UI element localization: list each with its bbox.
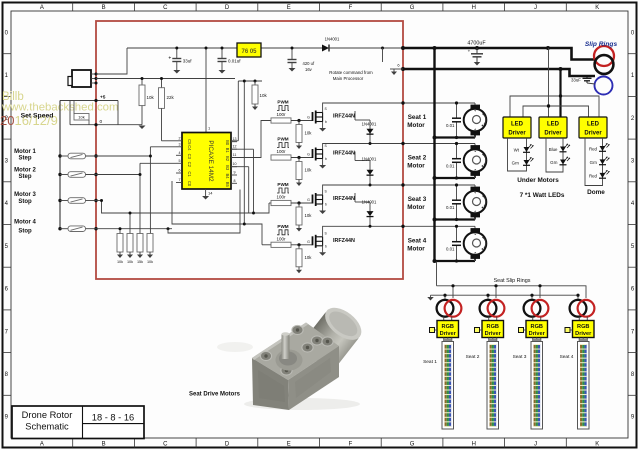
svg-text:Grn: Grn: [590, 160, 598, 165]
svg-text:G: G: [307, 116, 310, 120]
svg-text:Blue: Blue: [549, 147, 558, 152]
svg-text:+: +: [168, 56, 171, 62]
svg-text:Motor 1: Motor 1: [14, 149, 36, 155]
svg-text:5: 5: [179, 159, 181, 163]
svg-text:B: B: [102, 442, 106, 448]
svg-text:Set Speed: Set Speed: [21, 113, 54, 120]
svg-text:1N4001: 1N4001: [362, 200, 377, 205]
svg-text:K: K: [595, 5, 599, 11]
svg-text:4700uF: 4700uF: [467, 41, 486, 47]
svg-text:0.01uf: 0.01uf: [228, 59, 241, 64]
svg-text:LED: LED: [587, 122, 600, 128]
svg-text:Seat 4: Seat 4: [560, 354, 574, 360]
svg-text:LED: LED: [511, 122, 524, 128]
svg-text:E: E: [287, 442, 291, 448]
svg-text:100r: 100r: [276, 236, 286, 241]
svg-text:J: J: [534, 442, 537, 448]
svg-text:Under Motors: Under Motors: [517, 177, 559, 184]
svg-text:J: J: [534, 5, 537, 11]
svg-text:Motor 3: Motor 3: [14, 192, 36, 198]
svg-text:B0: B0: [225, 140, 230, 146]
svg-text:Red: Red: [589, 147, 598, 152]
svg-text:1N4001: 1N4001: [325, 37, 340, 42]
svg-text:H: H: [472, 5, 476, 11]
svg-text:100r: 100r: [276, 195, 286, 200]
svg-text:F: F: [349, 442, 353, 448]
svg-text:1N4001: 1N4001: [362, 122, 377, 127]
svg-text:100r: 100r: [276, 149, 286, 154]
svg-text:D: D: [225, 5, 230, 11]
svg-text:11: 11: [233, 153, 237, 157]
svg-text:G: G: [410, 5, 415, 11]
svg-text:9: 9: [234, 171, 236, 175]
svg-text:Rotate command from: Rotate command from: [329, 70, 373, 75]
svg-text:Seat 3: Seat 3: [513, 354, 527, 360]
svg-text:Schematic: Schematic: [25, 422, 69, 432]
svg-text:D: D: [225, 442, 230, 448]
svg-text:33uf: 33uf: [183, 59, 193, 64]
svg-text:Grn: Grn: [550, 160, 558, 165]
svg-text:14: 14: [208, 191, 213, 196]
svg-text:Driver: Driver: [485, 331, 502, 337]
svg-text:Seat Drive Motors: Seat Drive Motors: [189, 392, 241, 398]
svg-text:Motor: Motor: [407, 204, 425, 211]
svg-text:b: b: [325, 244, 327, 248]
svg-text:PWM: PWM: [277, 137, 288, 142]
svg-text:Motor: Motor: [407, 162, 425, 169]
svg-text:IRFZ44N: IRFZ44N: [333, 114, 355, 120]
svg-text:Stop: Stop: [18, 199, 32, 205]
svg-text:7 *1 Watt LEDs: 7 *1 Watt LEDs: [520, 192, 565, 199]
svg-text:Step: Step: [18, 156, 31, 162]
svg-text:G: G: [307, 198, 310, 202]
svg-text:B1: B1: [225, 148, 230, 154]
svg-text:10k: 10k: [305, 213, 313, 218]
svg-text:22k: 22k: [167, 95, 175, 100]
svg-text:Grn: Grn: [512, 161, 520, 166]
svg-text:LED: LED: [547, 122, 560, 128]
svg-text:10k: 10k: [305, 168, 313, 173]
svg-text:Drone Rotor: Drone Rotor: [22, 410, 73, 420]
svg-text:IRFZ44N: IRFZ44N: [333, 151, 355, 157]
svg-text:1N4001: 1N4001: [362, 157, 377, 162]
svg-text:Seat 1: Seat 1: [423, 359, 437, 365]
svg-text:C4: C4: [187, 145, 192, 151]
svg-text:420 uf: 420 uf: [303, 61, 315, 66]
svg-text:b: b: [325, 157, 327, 161]
svg-text:F: F: [349, 5, 353, 11]
svg-text:Motor: Motor: [407, 122, 425, 129]
svg-text:Seat 3: Seat 3: [408, 196, 427, 203]
svg-text:K: K: [595, 442, 599, 448]
svg-text:Driver: Driver: [508, 131, 526, 137]
svg-text:Seat 2: Seat 2: [408, 155, 427, 162]
svg-text:Seat 2: Seat 2: [466, 354, 480, 360]
svg-text:Red: Red: [589, 173, 598, 178]
svg-text:Driver: Driver: [575, 331, 592, 337]
svg-text:A: A: [40, 442, 44, 448]
svg-text:33uF: 33uF: [571, 78, 581, 83]
svg-text:Wt: Wt: [514, 148, 520, 153]
svg-text:b: b: [325, 203, 327, 207]
svg-text:10k: 10k: [117, 260, 123, 264]
svg-text:A: A: [40, 5, 44, 11]
svg-text:100r: 100r: [276, 112, 286, 117]
svg-text:IRFZ44N: IRFZ44N: [333, 196, 355, 202]
svg-text:+5: +5: [100, 95, 106, 101]
svg-text:Slip Rings: Slip Rings: [585, 41, 618, 48]
svg-text:Motor: Motor: [407, 245, 425, 252]
svg-text:0.01: 0.01: [446, 205, 455, 210]
svg-text:10k: 10k: [78, 115, 84, 120]
svg-text:Dome: Dome: [587, 189, 605, 196]
svg-text:18 - 8 - 16: 18 - 8 - 16: [92, 413, 134, 423]
svg-text:7: 7: [179, 178, 181, 182]
svg-text:RGB: RGB: [531, 324, 543, 330]
svg-text:b: b: [325, 120, 327, 124]
svg-text:Step: Step: [18, 174, 31, 180]
svg-text:76 05: 76 05: [241, 49, 257, 55]
svg-text:C1: C1: [187, 171, 192, 177]
svg-text:B: B: [102, 5, 106, 11]
svg-text:10k: 10k: [305, 131, 313, 136]
svg-text:10: 10: [233, 162, 237, 166]
svg-text:0.01: 0.01: [446, 246, 455, 251]
svg-text:B5: B5: [225, 182, 230, 188]
svg-text:12: 12: [233, 145, 237, 149]
svg-text:Driver: Driver: [584, 131, 602, 137]
svg-text:C2: C2: [187, 162, 192, 168]
svg-text:Driver: Driver: [544, 131, 562, 137]
svg-text:3: 3: [179, 142, 181, 146]
svg-text:B2: B2: [225, 156, 230, 162]
svg-text:10k: 10k: [260, 93, 268, 98]
svg-text:PICAXE 14M2: PICAXE 14M2: [207, 140, 214, 182]
svg-text:G: G: [307, 153, 310, 157]
svg-text:Seat 1: Seat 1: [408, 114, 427, 121]
svg-text:Main Processor: Main Processor: [333, 76, 364, 81]
svg-text:H: H: [472, 442, 476, 448]
svg-text:15k: 15k: [137, 260, 143, 264]
svg-text:Driver: Driver: [440, 331, 457, 337]
svg-text:6: 6: [179, 169, 181, 173]
svg-text:PWM: PWM: [277, 100, 288, 105]
svg-text:0.01: 0.01: [446, 163, 455, 168]
svg-text:G: G: [307, 240, 310, 244]
svg-text:Motor 4: Motor 4: [14, 220, 36, 226]
svg-text:Stop: Stop: [18, 229, 32, 235]
svg-text:G: G: [410, 442, 415, 448]
svg-text:Seat 4: Seat 4: [408, 238, 427, 245]
svg-text:16v: 16v: [305, 67, 313, 72]
svg-text:Motor 2: Motor 2: [14, 168, 36, 174]
svg-text:C: C: [163, 442, 168, 448]
svg-text:C3: C3: [187, 154, 192, 160]
svg-text:RGB: RGB: [442, 324, 454, 330]
svg-text:B3: B3: [225, 165, 230, 171]
svg-text:+: +: [468, 49, 471, 54]
svg-text:PWM: PWM: [277, 224, 288, 229]
svg-text:PWM: PWM: [277, 182, 288, 187]
svg-text:RGB: RGB: [577, 324, 589, 330]
svg-text:0.01: 0.01: [446, 123, 455, 128]
svg-text:IRFZ44N: IRFZ44N: [333, 238, 355, 244]
svg-text:8: 8: [234, 179, 236, 183]
svg-text:0: 0: [100, 119, 103, 125]
svg-text:E: E: [287, 5, 291, 11]
svg-text:B4: B4: [225, 173, 230, 179]
svg-text:C: C: [163, 5, 168, 11]
svg-text:C0: C0: [187, 181, 192, 187]
svg-text:10k: 10k: [147, 260, 153, 264]
svg-text:2: 2: [179, 136, 181, 140]
svg-text:10k: 10k: [127, 260, 133, 264]
svg-text:RGB: RGB: [487, 324, 499, 330]
svg-text:Seat Slip Rings: Seat Slip Rings: [494, 278, 531, 284]
svg-text:Driver: Driver: [529, 331, 546, 337]
svg-text:4: 4: [179, 151, 181, 155]
svg-text:10k: 10k: [147, 95, 155, 100]
svg-text:10k: 10k: [305, 255, 313, 260]
